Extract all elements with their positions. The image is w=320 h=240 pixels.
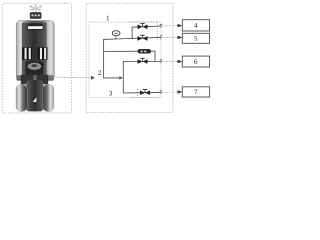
digit 4 xyxy=(194,23,197,28)
box 7 xyxy=(182,87,209,97)
dashed link row4 xyxy=(163,91,178,93)
label 3 xyxy=(109,91,112,96)
red dashed edge left of valve V4 xyxy=(137,89,139,97)
left wheel xyxy=(16,84,27,111)
pump xyxy=(138,49,151,53)
machine inner dark panel xyxy=(22,23,47,80)
dashed link row3 xyxy=(163,61,178,63)
sensor icon display box xyxy=(30,12,41,18)
dashed link row2 xyxy=(163,36,178,38)
right outer dashed frame xyxy=(86,3,173,112)
wire riser vertical xyxy=(122,62,124,94)
arrow into box 5 xyxy=(178,36,183,40)
valve V1 xyxy=(138,24,148,30)
arrow into box 4 xyxy=(178,24,183,28)
box 5 xyxy=(182,33,209,43)
wire row1 horizontal xyxy=(132,26,161,27)
label 2 xyxy=(98,70,101,75)
right wheel xyxy=(43,84,54,111)
red line arrowhead xyxy=(91,76,95,80)
rear white mark xyxy=(33,97,37,102)
wire row4 horizontal xyxy=(123,91,161,94)
wire row3 horizontal xyxy=(123,61,161,63)
connector row1 xyxy=(160,24,163,28)
dashed link row1 xyxy=(163,25,178,27)
inner dashed frame xyxy=(89,22,161,98)
wire bus vertical xyxy=(103,39,105,78)
wire pump branch xyxy=(103,50,138,52)
wire stub to row1 xyxy=(131,27,133,39)
digit 5 xyxy=(194,36,197,41)
connector row4 xyxy=(160,91,163,95)
left dashed frame xyxy=(2,3,71,113)
rear body xyxy=(26,80,43,111)
arrow into box 6 xyxy=(178,60,183,64)
wire bus to riser xyxy=(103,77,120,79)
arrowhead at riser junction xyxy=(119,76,123,79)
wire pump out xyxy=(151,51,155,61)
label 1 xyxy=(107,16,109,21)
red dashed overlay bottom of valve V4 xyxy=(130,97,160,99)
track block left xyxy=(22,47,32,59)
gauge xyxy=(115,33,117,39)
machine top white slot xyxy=(27,24,43,29)
connector row3 xyxy=(160,60,163,64)
sensor icon mast cross xyxy=(30,7,41,13)
digit 7 xyxy=(195,90,198,95)
valve V3 xyxy=(138,58,148,64)
box 4 xyxy=(182,20,209,31)
wire row2 horizontal xyxy=(103,37,161,39)
sensor icon tip circles xyxy=(30,6,32,8)
digit 6 xyxy=(194,59,197,64)
engine block xyxy=(26,62,44,75)
machine upper shell xyxy=(16,21,54,80)
track block right xyxy=(38,47,48,59)
axle assembly xyxy=(16,75,53,81)
valve V4 xyxy=(140,90,150,96)
arrow into box 7 xyxy=(178,90,183,94)
connector row2 xyxy=(160,36,163,40)
valve V2 xyxy=(138,35,148,41)
red dashed line from machine xyxy=(49,76,92,79)
red dashed overlay top of valve group xyxy=(128,21,157,23)
red dashed edge right of valve group xyxy=(156,22,158,42)
box 6 xyxy=(182,56,209,67)
